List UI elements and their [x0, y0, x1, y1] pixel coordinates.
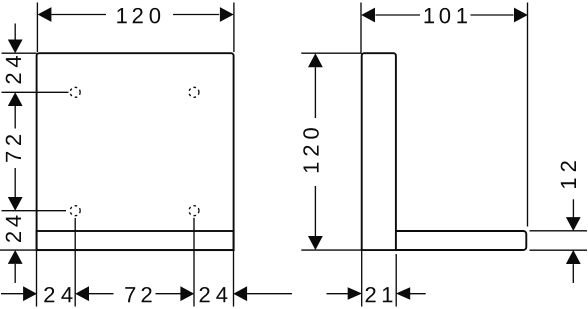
- bottom chain: extension from left hole: [74, 218, 76, 307]
- dim 120 side: tick at bar bottom: [301, 249, 361, 251]
- hole top-right (dashed): [189, 87, 199, 97]
- label 24 bottom right: [200, 287, 228, 302]
- dim 12: tick at ledge bottom: [530, 249, 588, 251]
- dim 120 side: arrow up: [308, 53, 323, 67]
- dim 120 top: arrowhead left: [38, 7, 52, 22]
- front view: shelf ledge front edge: [37, 231, 234, 250]
- dim 120 side: arrow down: [314, 186, 316, 237]
- left chain: arrow up to plate bottom + tail: [8, 250, 23, 264]
- front view: wall plate outline 120x120: [37, 53, 234, 250]
- hole top-left (dashed): [70, 87, 80, 97]
- label 120 side (rotated): [303, 128, 319, 172]
- dim 21: right outside arrow: [396, 287, 410, 300]
- side view: ledge outline: [396, 231, 526, 250]
- dim 101 top: extension line left: [360, 3, 362, 53]
- label 24 left upper (rotated): [6, 56, 21, 83]
- left chain: arrow down to plate top: [14, 24, 16, 41]
- dim 12: lower arrow up + tail: [566, 250, 581, 264]
- dim 120 top: extension line left: [36, 3, 38, 53]
- label 21 bottom: [366, 287, 393, 302]
- left chain tick at plate top: [2, 52, 37, 54]
- label 72 bottom: [125, 287, 151, 302]
- label 12 side (rotated): [561, 161, 576, 188]
- bottom chain: extension right plate edge: [233, 250, 235, 307]
- bottom chain: right outside arrow: [233, 286, 247, 301]
- dim 101 top: arrowhead right: [514, 8, 528, 23]
- dim 101 top: arrowhead left: [361, 8, 375, 23]
- left chain tick at plate bottom: [0, 249, 37, 251]
- bottom chain: 72 arrows and line: [75, 286, 89, 301]
- dim 12: upper arrow down + line: [572, 199, 574, 217]
- dim 21: extension left (bar edge): [361, 250, 363, 307]
- hole bottom-left (dashed): [70, 206, 80, 216]
- label 24 left lower (rotated): [6, 216, 21, 242]
- dim 120 top: dimension line: [51, 14, 219, 16]
- left chain: 72 line + arrow down to lower holes: [14, 168, 16, 198]
- label 101 top: [425, 8, 467, 24]
- left chain tick / centerline upper holes: [2, 91, 69, 93]
- dim 120 top: extension line right: [233, 3, 235, 53]
- dim 21: extension right (bar right face): [395, 254, 397, 307]
- dim 12: tick at ledge top: [530, 230, 588, 232]
- left chain: arrow up to upper holes + tail: [8, 92, 23, 106]
- dim 120 side: tick at bar top: [301, 52, 361, 54]
- hole bottom-right (dashed): [189, 206, 199, 216]
- bottom chain: extension from right hole: [193, 218, 195, 307]
- bottom chain: extension left plate edge: [36, 250, 38, 307]
- bottom chain: left outside arrow: [1, 293, 23, 295]
- dim 120 top: arrowhead right: [220, 7, 234, 22]
- dim 101 top: extension line right: [527, 3, 529, 227]
- side view: wall bar outline: [362, 53, 396, 250]
- left chain tick / centerline lower holes: [2, 210, 67, 212]
- dim 101 top: dimension line: [376, 14, 514, 16]
- label 24 bottom left: [44, 287, 72, 302]
- label 72 left (rotated): [6, 135, 21, 162]
- label 120 top: [117, 8, 160, 24]
- dim 21: left outside arrow: [327, 293, 349, 295]
